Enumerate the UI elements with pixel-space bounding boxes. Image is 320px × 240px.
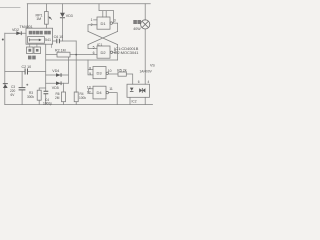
svg-text:6: 6 bbox=[138, 80, 140, 84]
svg-text:D2: D2 bbox=[101, 50, 107, 55]
svg-text:300k: 300k bbox=[27, 95, 34, 99]
svg-text:2: 2 bbox=[91, 23, 93, 27]
svg-text:4: 4 bbox=[148, 80, 150, 84]
svg-text:D3: D3 bbox=[97, 70, 103, 75]
svg-text:VD2: VD2 bbox=[12, 28, 19, 32]
svg-text:R2 1M: R2 1M bbox=[55, 49, 66, 53]
svg-text:VD3: VD3 bbox=[66, 14, 73, 18]
svg-text:1: 1 bbox=[91, 18, 93, 22]
svg-text:9: 9 bbox=[89, 72, 91, 76]
svg-text:IC1: IC1 bbox=[97, 43, 103, 47]
svg-text:C2 10: C2 10 bbox=[22, 65, 32, 69]
svg-text:8: 8 bbox=[89, 66, 91, 70]
svg-text:100k: 100k bbox=[79, 96, 86, 100]
svg-text:10: 10 bbox=[108, 69, 112, 73]
svg-text:R5 2k: R5 2k bbox=[117, 69, 127, 73]
svg-text:6: 6 bbox=[93, 51, 95, 55]
svg-text:1000p: 1000p bbox=[43, 102, 52, 106]
svg-text:2M: 2M bbox=[55, 96, 60, 100]
svg-text:IC2: IC2 bbox=[132, 99, 137, 103]
svg-text:12: 12 bbox=[87, 90, 91, 94]
svg-text:13: 13 bbox=[87, 85, 91, 89]
svg-text:VD5: VD5 bbox=[52, 86, 59, 90]
svg-text:D1: D1 bbox=[101, 21, 107, 26]
svg-text:5: 5 bbox=[93, 45, 95, 49]
svg-text:541: 541 bbox=[45, 38, 51, 42]
svg-text:1M: 1M bbox=[36, 17, 41, 21]
svg-text:D4: D4 bbox=[97, 90, 103, 95]
svg-text:1A/400V: 1A/400V bbox=[140, 70, 153, 74]
svg-text:3: 3 bbox=[114, 18, 116, 22]
svg-text:VD4: VD4 bbox=[52, 69, 59, 73]
svg-text:C6 10: C6 10 bbox=[54, 35, 64, 39]
svg-text:VS: VS bbox=[150, 64, 155, 68]
svg-text:TM4001: TM4001 bbox=[20, 25, 33, 29]
svg-text:40W: 40W bbox=[133, 27, 141, 31]
svg-text:IC2:MOC3041: IC2:MOC3041 bbox=[114, 50, 139, 55]
svg-text:11: 11 bbox=[109, 87, 113, 91]
